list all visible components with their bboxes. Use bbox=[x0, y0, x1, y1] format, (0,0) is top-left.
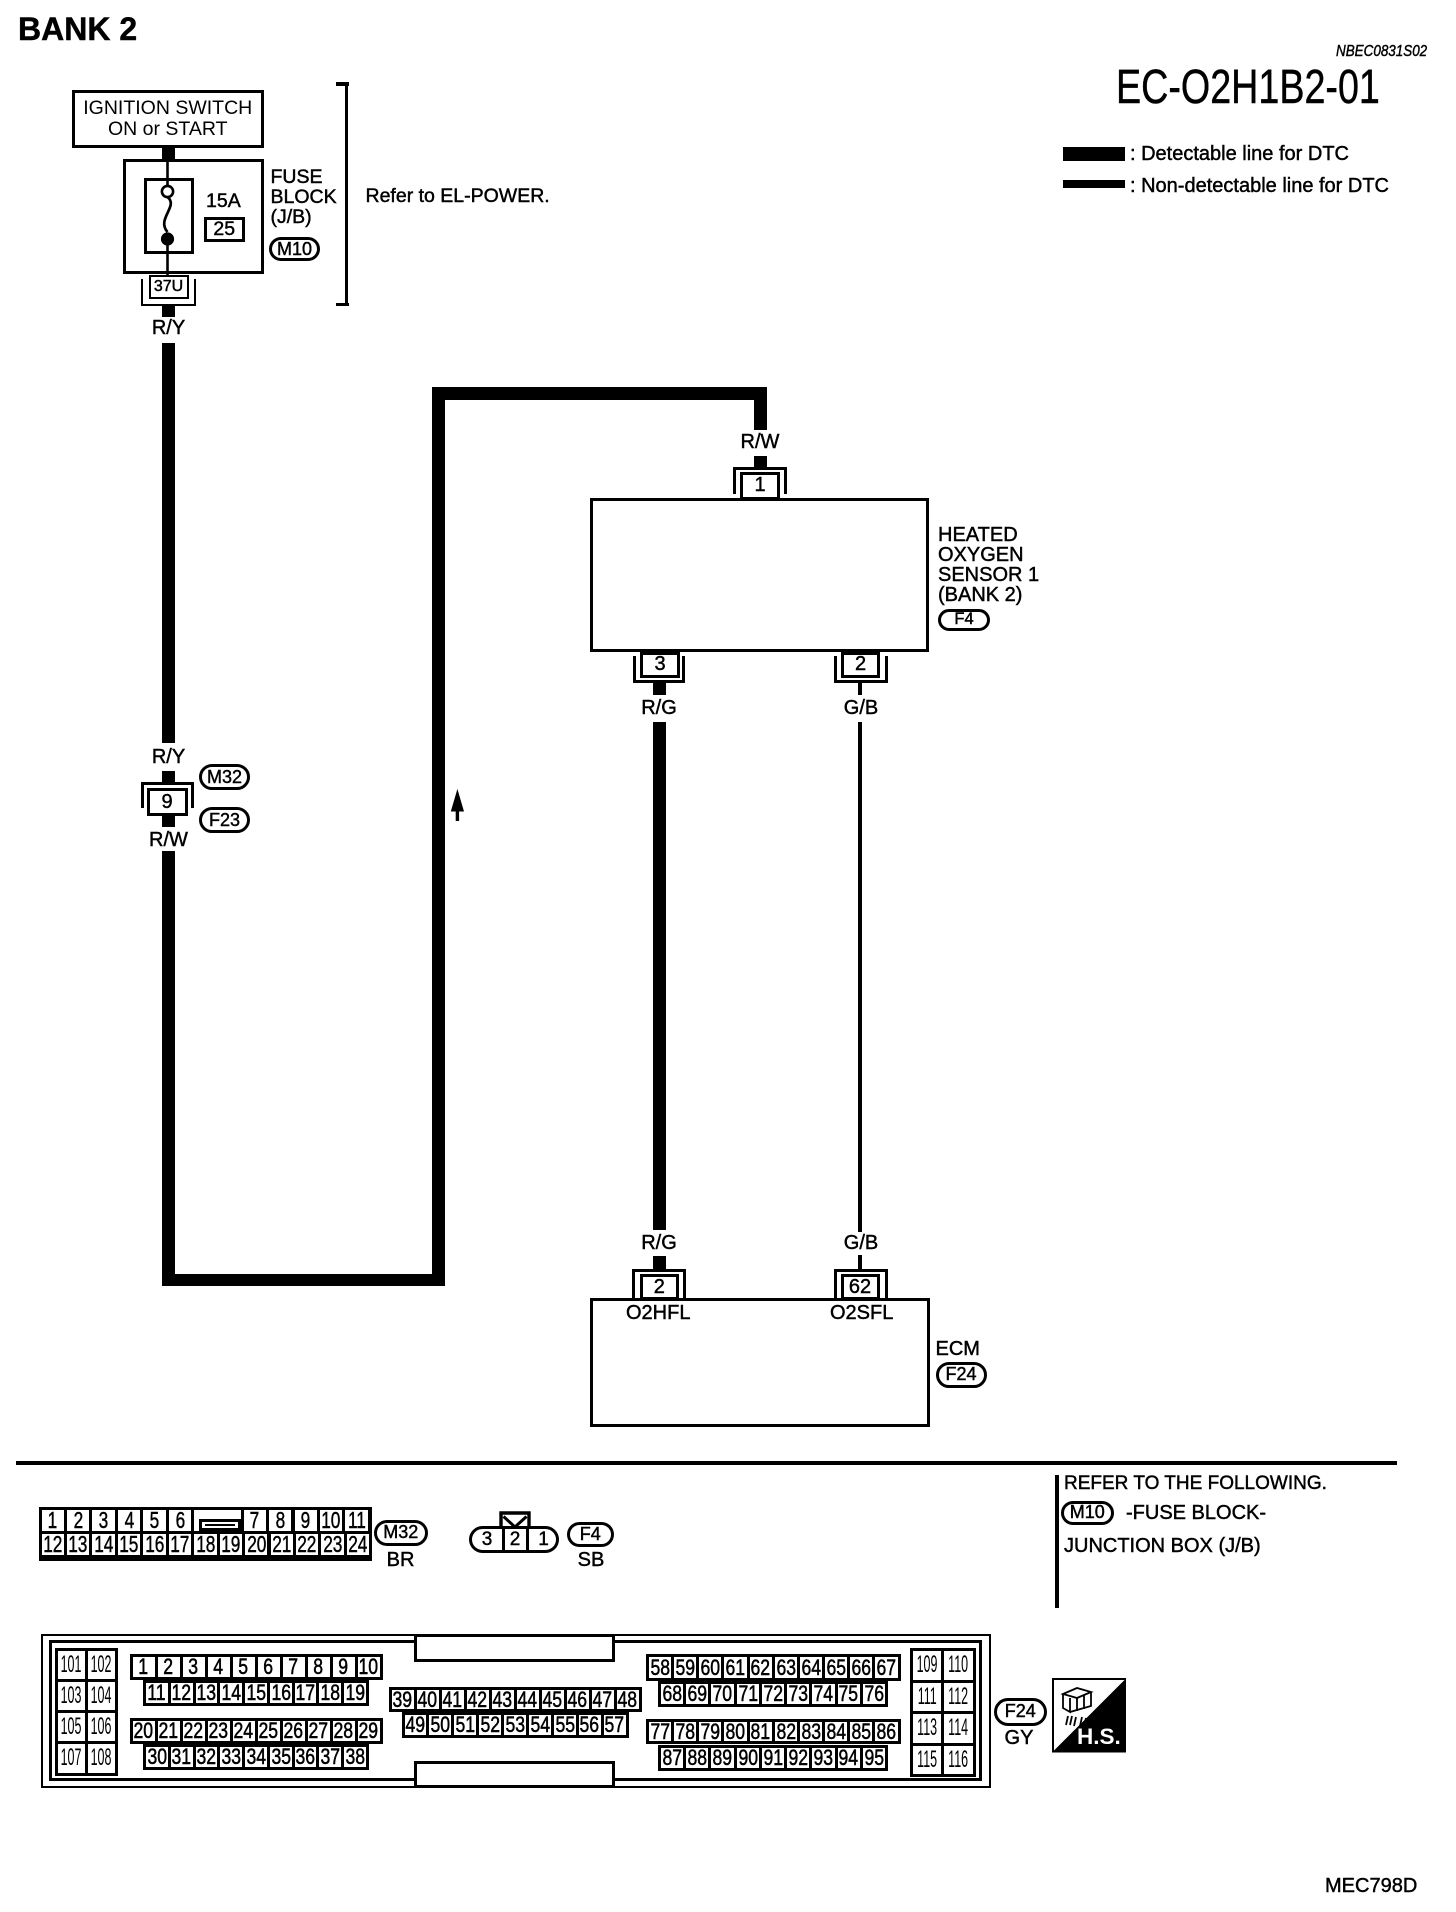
label -FUSE BLOCK- bbox=[1126, 1503, 1266, 1523]
sensor connector 1 shell bbox=[733, 467, 787, 495]
ECM pins 109-116 bbox=[910, 1648, 976, 1777]
sensor terminal 3 box bbox=[640, 652, 680, 678]
connector ref M32 oval bbox=[199, 764, 250, 790]
in-line connector terminal 9 box bbox=[147, 788, 188, 816]
wire stub below connector 9 bbox=[162, 816, 175, 827]
connector M32 slot bbox=[199, 1519, 241, 1531]
ECM pins 68-76 bbox=[658, 1681, 888, 1707]
wire R/W thick vertical bbox=[162, 851, 175, 1286]
ECM box bbox=[590, 1298, 931, 1427]
ECM pins 58-67 bbox=[646, 1654, 901, 1681]
sensor connector 3 shell bbox=[633, 656, 685, 683]
label BR bbox=[387, 1550, 415, 1570]
ECM terminal 62 box bbox=[841, 1274, 880, 1300]
ECM pins 1-10 bbox=[130, 1654, 383, 1680]
label O2HFL bbox=[626, 1303, 690, 1323]
refer column vertical line bbox=[1055, 1475, 1059, 1608]
title BANK 2 bbox=[18, 13, 137, 45]
ECM pins 87-95 bbox=[658, 1745, 888, 1771]
wire stub below terminal 3 bbox=[653, 683, 666, 695]
wire label G/B bbox=[844, 698, 878, 718]
connector face M32 24-pin bbox=[39, 1507, 373, 1561]
wire label R/W below connector 9 bbox=[149, 830, 188, 850]
ECM pins 39-48 bbox=[389, 1687, 642, 1712]
in-line connector 9 shell bbox=[141, 782, 195, 808]
wire ignition to fuse block bbox=[162, 146, 175, 159]
bracket refer bbox=[336, 82, 349, 86]
fuse rating 15A bbox=[206, 192, 241, 212]
connector ref M10 oval bbox=[269, 237, 320, 261]
code MEC798D bbox=[1325, 1876, 1417, 1896]
connector F4 key bbox=[499, 1511, 531, 1531]
ECM connector top notch bbox=[414, 1634, 615, 1662]
legend non-detectable text bbox=[1130, 176, 1389, 196]
ECM connector 2 shell bbox=[632, 1269, 686, 1299]
wire label R/Y above connector 9 bbox=[152, 747, 185, 767]
ECM pins 20-29 bbox=[130, 1718, 383, 1744]
connector ref F4 oval bbox=[938, 609, 990, 631]
wire label R/W at sensor bbox=[741, 432, 780, 452]
title EC-O2H1B2-01 bbox=[1116, 64, 1380, 112]
ECM pins 77-86 bbox=[646, 1719, 901, 1744]
wire thin stub above ECM terminal 62 bbox=[858, 1255, 861, 1269]
connector terminal 37U box bbox=[149, 275, 189, 300]
label HEATED OXYGEN SENSOR 1 (BANK 2) bbox=[938, 525, 1018, 545]
wire thick drop to R/W bbox=[754, 400, 767, 430]
ECM pins 11-19 bbox=[143, 1680, 369, 1706]
fuse block box M10 bbox=[123, 159, 264, 275]
connector ref F23 oval bbox=[199, 807, 250, 833]
ECM connector outline inner bbox=[49, 1640, 982, 1781]
fuse number 25 box bbox=[204, 217, 245, 243]
wire stub above ECM terminal 2 bbox=[653, 1256, 666, 1269]
connector F4 cell 2 box bbox=[502, 1526, 529, 1553]
ECM connector outline outer bbox=[41, 1634, 991, 1788]
ignition switch box bbox=[72, 90, 264, 148]
legend non-detectable line sample bbox=[1063, 180, 1125, 189]
svg-text:H.S.: H.S. bbox=[1077, 1724, 1121, 1749]
legend detectable text bbox=[1130, 144, 1349, 164]
fuse 25 symbol bbox=[140, 155, 200, 280]
wire R/G thick vertical bbox=[653, 722, 666, 1230]
wire stub above connector 1 bbox=[754, 456, 767, 467]
label FUSE BLOCK (J/B) bbox=[271, 168, 323, 188]
wire G/B thin vertical bbox=[858, 722, 861, 1232]
ECM connector bottom notch bbox=[414, 1761, 615, 1788]
fuse holder box bbox=[144, 178, 195, 254]
heated oxygen sensor box bbox=[590, 498, 929, 652]
wire thick right vertical bbox=[432, 387, 445, 1286]
wire label R/G bbox=[641, 698, 677, 718]
ECM pins 101-108 bbox=[55, 1648, 118, 1776]
wire stub above connector 9 bbox=[162, 771, 175, 783]
ECM terminal 2 box bbox=[640, 1274, 679, 1300]
wire R/Y thick vertical bbox=[162, 343, 175, 743]
connector 37U shell bbox=[141, 279, 196, 306]
connector face F4 3-pin bbox=[469, 1526, 559, 1553]
wire thick bottom horizontal bbox=[162, 1274, 445, 1287]
code NBEC0831S02 bbox=[1336, 44, 1427, 60]
ECM connector 62 shell bbox=[834, 1269, 888, 1299]
label JUNCTION BOX (J/B) bbox=[1064, 1536, 1261, 1556]
connector ref M10 oval bottom bbox=[1061, 1501, 1114, 1526]
separator line bbox=[16, 1461, 1398, 1465]
label O2SFL bbox=[830, 1303, 893, 1323]
connector F4 pin numbers bbox=[482, 1530, 493, 1549]
wire stub below terminal 2 bbox=[858, 683, 862, 695]
connector ref F24 oval bottom bbox=[994, 1698, 1047, 1726]
label SB bbox=[578, 1550, 605, 1570]
sensor terminal 1 box bbox=[740, 472, 780, 500]
ECM pins 30-38 bbox=[143, 1744, 369, 1770]
connector ref F4 oval bottom bbox=[567, 1522, 615, 1547]
wire stub below 37U bbox=[162, 306, 175, 317]
wire label G/B at ECM bbox=[844, 1233, 878, 1253]
label REFER TO THE FOLLOWING. bbox=[1064, 1474, 1327, 1493]
label Refer to EL-POWER. bbox=[366, 187, 550, 207]
label GY bbox=[1005, 1728, 1034, 1748]
sensor terminal 2 box bbox=[841, 652, 880, 678]
wire label R/Y bbox=[152, 318, 185, 338]
connector ref M32 oval bottom bbox=[374, 1520, 428, 1547]
label ECM bbox=[936, 1339, 980, 1359]
connector ref F24 oval bbox=[936, 1362, 987, 1388]
ECM pins 49-57 bbox=[402, 1712, 629, 1738]
legend detectable line sample bbox=[1063, 147, 1125, 161]
wire label R/G at ECM bbox=[641, 1233, 677, 1253]
sensor connector 2 shell bbox=[834, 656, 888, 683]
arrow up on wire bbox=[449, 788, 466, 822]
wire thick top horizontal bbox=[432, 387, 767, 400]
H.S. view symbol bbox=[1052, 1678, 1127, 1753]
